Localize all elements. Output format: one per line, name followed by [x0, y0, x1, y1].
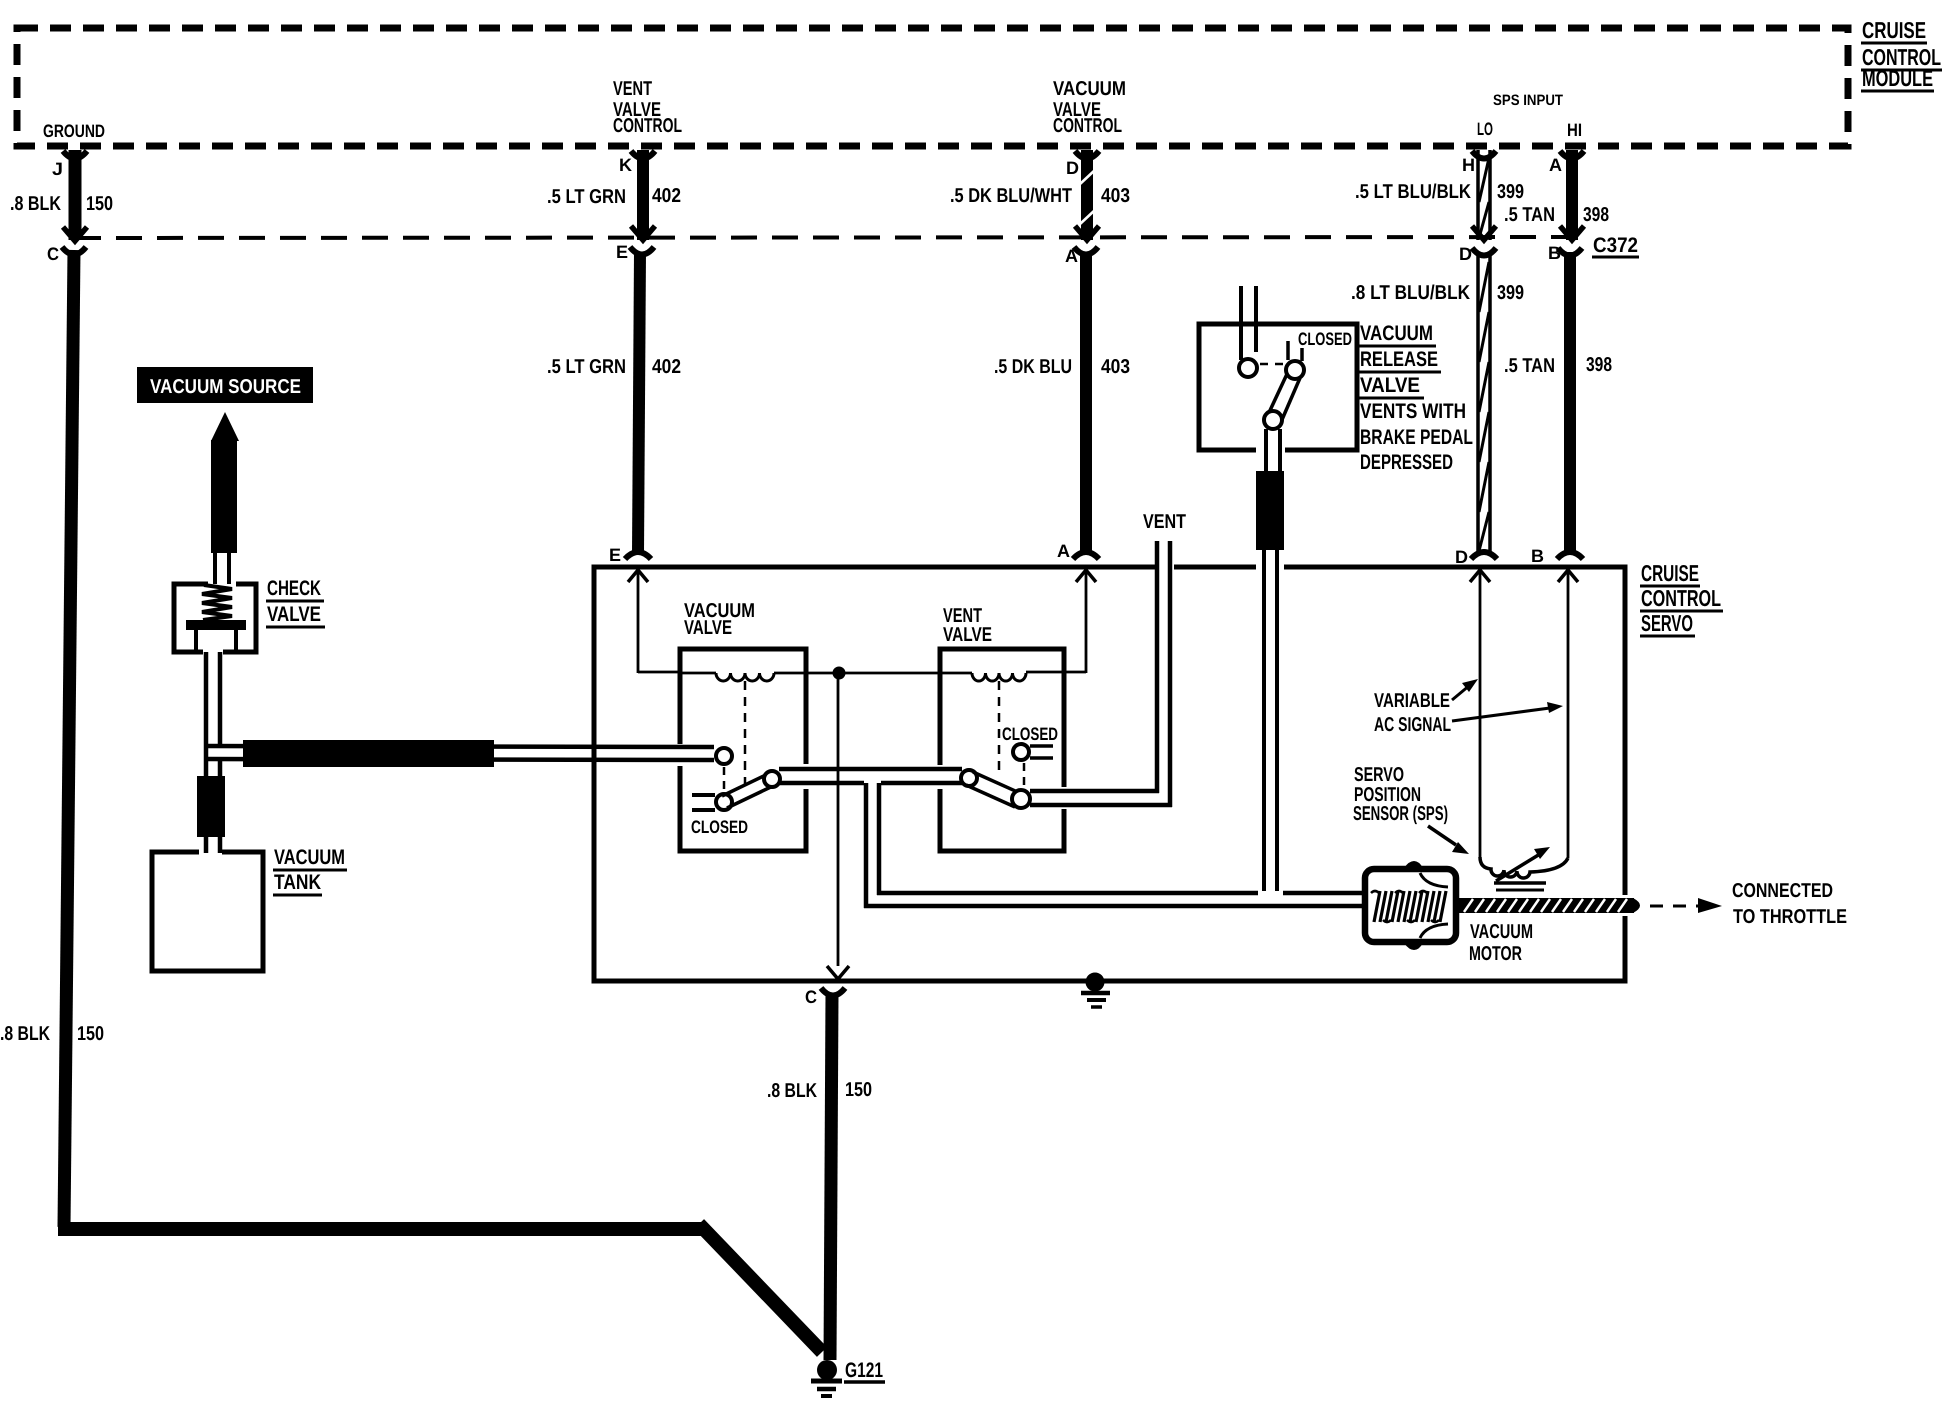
module pin function label SPS INPUT — [1493, 92, 1563, 109]
svg-text:.8 BLK: .8 BLK — [767, 1080, 817, 1102]
svg-text:VACUUM SOURCE: VACUUM SOURCE — [150, 376, 301, 398]
connector collar at pin B — [1558, 248, 1582, 256]
svg-text:403: 403 — [1101, 185, 1130, 207]
connector collar at pin A — [1074, 247, 1098, 255]
svg-text:HI: HI — [1567, 120, 1582, 140]
svg-text:TO THROTTLE: TO THROTTLE — [1733, 906, 1847, 928]
svg-text:VACUUM: VACUUM — [1360, 322, 1433, 345]
module pin function label VACUUM VALVE CONTROL — [1053, 78, 1126, 137]
vacuum source hose (black) — [211, 440, 237, 553]
connected to throttle label — [1732, 880, 1847, 928]
vacuum tank box — [152, 852, 263, 971]
cruise control module label — [1861, 17, 1942, 91]
SPS base lines — [1494, 883, 1546, 890]
vent valve port linkage dashed — [1023, 763, 1026, 791]
vent valve closed port stubs — [1030, 746, 1053, 758]
svg-text:398: 398 — [1586, 354, 1612, 376]
hose sleeve on release tube (black) — [1256, 471, 1284, 550]
connector collar at servo pin C — [821, 988, 845, 996]
svg-text:MODULE: MODULE — [1862, 65, 1933, 91]
svg-text:CLOSED: CLOSED — [1298, 329, 1352, 349]
vent valve coil linkage dashed — [998, 681, 1001, 772]
wire label 402 — [652, 185, 681, 207]
variable AC signal label — [1374, 690, 1451, 736]
svg-text:GROUND: GROUND — [43, 121, 105, 141]
wire end flare at servo pin B — [1557, 552, 1583, 559]
svg-text:150: 150 — [77, 1023, 104, 1045]
connector collar at pin C — [62, 247, 86, 255]
pin letter B (C372) — [1548, 243, 1561, 263]
svg-text:D: D — [1455, 547, 1468, 567]
pin letter H — [1462, 155, 1475, 175]
coil link wire between valves — [774, 672, 972, 675]
wire label 398 lower — [1586, 354, 1612, 376]
connector collar at pin E — [630, 247, 654, 255]
wire label .5 LT GRN — [547, 186, 626, 208]
svg-text:.5 LT GRN: .5 LT GRN — [547, 356, 626, 378]
wire module ground run down left side — [64, 250, 74, 1227]
svg-text:VENTS WITH: VENTS WITH — [1360, 400, 1466, 423]
svg-text:D: D — [1066, 158, 1079, 178]
wire end flare at servo pin E — [625, 552, 651, 559]
vacuum valve label — [684, 600, 755, 639]
cruise control module dashed box — [17, 28, 1848, 146]
svg-text:CLOSED: CLOSED — [691, 817, 748, 837]
vacuum motor body — [1365, 861, 1456, 950]
svg-text:.8 BLK: .8 BLK — [10, 193, 61, 215]
svg-text:CONTROL: CONTROL — [1053, 115, 1122, 137]
vacuum release valve pivot circle — [1286, 361, 1304, 379]
svg-text:J: J — [52, 159, 63, 179]
module pin sublabel LO — [1477, 119, 1493, 139]
throttle dashed arrow — [1650, 898, 1722, 913]
wire end arrow at C372 pin D — [1472, 226, 1496, 240]
vacuum source hose arrow tip — [211, 412, 239, 441]
servo position sensor pointer arrow — [1428, 826, 1469, 854]
pin letter D (C372) — [1459, 244, 1472, 264]
module pin function label VENT VALVE CONTROL — [613, 78, 682, 137]
vacuum release valve vent port circle — [1239, 359, 1257, 377]
vent valve coil — [972, 673, 1026, 681]
wire label .8 BLK (left lower) — [0, 1023, 50, 1045]
servo internal ground wire to pin C — [827, 673, 849, 979]
wire end flare at servo pin A — [1073, 552, 1099, 559]
vent valve lever — [966, 772, 1022, 807]
vacuum release valve vent tube — [1241, 286, 1256, 360]
vent stack tube — [1157, 541, 1170, 807]
svg-text:MOTOR: MOTOR — [1469, 943, 1522, 965]
svg-text:150: 150 — [845, 1079, 872, 1101]
wire label .5 LT BLU/BLK — [1355, 181, 1471, 203]
svg-text:BRAKE PEDAL: BRAKE PEDAL — [1360, 426, 1473, 449]
wire label .8 BLK (servo ground) — [767, 1080, 817, 1102]
svg-text:DEPRESSED: DEPRESSED — [1360, 451, 1453, 474]
svg-text:CLOSED: CLOSED — [1002, 724, 1058, 744]
wire label 399 — [1497, 181, 1524, 203]
svg-text:CRUISE: CRUISE — [1641, 560, 1699, 586]
pin letter D — [1066, 158, 1079, 178]
vacuum release valve box — [1199, 324, 1357, 450]
svg-text:D: D — [1459, 244, 1472, 264]
wire label 399 lower — [1497, 282, 1524, 304]
junction node of valve coils — [833, 667, 846, 680]
svg-text:VARIABLE: VARIABLE — [1374, 690, 1450, 712]
vacuum release valve outlet circle — [1264, 411, 1282, 429]
wire E to servo, .5 LT GRN 402 (lower) — [638, 252, 640, 553]
connector collar at pin D — [1075, 151, 1099, 159]
wire end arrow at C372 pin C — [63, 227, 87, 241]
svg-text:.5 DK BLU/WHT: .5 DK BLU/WHT — [950, 185, 1072, 207]
connector collar at pin K — [631, 151, 655, 159]
svg-text:CRUISE: CRUISE — [1862, 17, 1926, 43]
vent valve box — [940, 649, 1064, 851]
pin letter J — [52, 159, 63, 179]
wire end arrow at C372 pin A — [1075, 226, 1099, 240]
connector collar at pin D lower — [1472, 248, 1496, 256]
pin letter C — [47, 244, 59, 264]
tube tee to vacuum valve — [208, 746, 714, 760]
vacuum tank label — [273, 846, 347, 895]
SPS resistive element — [1480, 857, 1568, 878]
wire label .5 DK BLU/WHT — [950, 185, 1072, 207]
wire label 402 lower — [652, 356, 681, 378]
vacuum valve inlet port circle — [716, 748, 732, 764]
vacuum valve outlet pivot circle — [764, 771, 780, 787]
ground label G121 — [844, 1359, 885, 1382]
svg-text:C372: C372 — [1593, 234, 1638, 257]
check valve box — [174, 584, 256, 652]
VENT label — [1143, 511, 1186, 533]
connector collar at pin H — [1472, 151, 1496, 159]
svg-text:SPS INPUT: SPS INPUT — [1493, 92, 1563, 109]
svg-text:.5 TAN: .5 TAN — [1504, 355, 1555, 377]
wire label .5 DK BLU lower — [994, 356, 1072, 378]
svg-text:A: A — [1549, 155, 1562, 175]
svg-text:A: A — [1065, 246, 1078, 266]
servo internal wire E arrow — [628, 570, 682, 673]
connector label C372 — [1592, 234, 1639, 257]
variable AC signal arrow to B wire — [1452, 702, 1563, 721]
wire label .5 LT GRN lower — [547, 356, 626, 378]
vent valve CLOSED label — [1002, 724, 1058, 744]
svg-text:VACUUM: VACUUM — [1053, 78, 1126, 100]
svg-text:VALVE: VALVE — [1360, 374, 1420, 397]
svg-text:402: 402 — [652, 185, 681, 207]
svg-text:.8 LT BLU/BLK: .8 LT BLU/BLK — [1351, 282, 1470, 304]
vacuum valve port linkage dashed — [723, 767, 726, 791]
svg-text:VENT: VENT — [1143, 511, 1186, 533]
vacuum valve coil linkage dashed — [744, 681, 747, 788]
svg-text:399: 399 — [1497, 282, 1524, 304]
throttle rod (hatched) — [1456, 898, 1640, 913]
wire ground diagonal to G121 — [699, 1224, 822, 1352]
svg-text:A: A — [1057, 541, 1070, 561]
wire label 403 — [1101, 185, 1130, 207]
svg-text:.5 LT BLU/BLK: .5 LT BLU/BLK — [1355, 181, 1471, 203]
servo position sensor label — [1353, 764, 1448, 825]
pin letter E — [616, 242, 628, 262]
pin letter K — [619, 155, 632, 175]
svg-text:398: 398 — [1583, 204, 1609, 226]
tube release valve to motor line — [1264, 550, 1277, 891]
wire B to servo, .5 TAN 398 (lower) — [1564, 252, 1576, 553]
wire D to servo, .8 LT BLU/BLK 399 (striped) — [1478, 255, 1490, 553]
cruise control servo box — [594, 567, 1625, 981]
wire label 150 — [86, 193, 113, 215]
tube to vacuum motor — [864, 893, 1367, 906]
vacuum release valve lever — [1266, 374, 1300, 422]
svg-text:RELEASE: RELEASE — [1360, 348, 1438, 371]
svg-text:LO: LO — [1477, 119, 1493, 139]
servo internal wire A arrow — [1026, 570, 1096, 673]
svg-text:G121: G121 — [845, 1359, 883, 1382]
svg-text:CONTROL: CONTROL — [613, 115, 682, 137]
servo pin letter B — [1531, 546, 1544, 566]
tube check valve to tee and tank — [206, 652, 220, 853]
wire label 398 — [1583, 204, 1609, 226]
servo pin letter C — [805, 987, 817, 1007]
svg-text:TANK: TANK — [274, 871, 321, 894]
wire label .8 LT BLU/BLK — [1351, 282, 1470, 304]
svg-text:VACUUM: VACUUM — [1470, 921, 1533, 943]
wire A, .5 TAN 398 (SPS HI upper) — [1566, 150, 1578, 240]
check valve label — [266, 577, 325, 627]
vacuum motor spring — [1371, 891, 1446, 922]
servo pin letter E — [609, 545, 621, 565]
connector collar at pin J — [63, 151, 87, 159]
vacuum valve coil — [682, 673, 774, 681]
vacuum release valve fixed contact ticks — [1288, 341, 1302, 361]
svg-text:CONTROL: CONTROL — [1641, 585, 1721, 611]
pin letter A (C372) — [1065, 246, 1078, 266]
ground G121 symbol — [811, 1360, 842, 1396]
vacuum release valve label — [1359, 322, 1473, 474]
svg-text:.8 BLK: .8 BLK — [0, 1023, 50, 1045]
vacuum valve closed port circle — [716, 794, 732, 810]
servo pin letter D — [1455, 547, 1468, 567]
variable AC signal arrow to D wire — [1452, 679, 1478, 700]
svg-text:B: B — [1531, 546, 1544, 566]
vent valve inlet pivot circle — [961, 770, 977, 786]
svg-text:VALVE: VALVE — [267, 603, 321, 626]
svg-text:150: 150 — [86, 193, 113, 215]
servo internal wire D arrow to SPS — [1470, 570, 1490, 858]
svg-text:C: C — [47, 244, 59, 264]
tube release valve outlet — [1266, 429, 1280, 473]
tube vent valve to vent stack — [1030, 791, 1172, 805]
connector C372 dashed line — [75, 237, 1588, 238]
vent valve closed port circle — [1013, 744, 1029, 760]
wire end arrow at C372 pin B — [1560, 226, 1584, 240]
vacuum motor label — [1469, 921, 1533, 965]
wire label .5 TAN lower — [1504, 355, 1555, 377]
svg-text:.5 DK BLU: .5 DK BLU — [994, 356, 1072, 378]
vent valve label — [943, 605, 992, 646]
vent valve outlet port circle — [1012, 790, 1030, 808]
wire label 150 (left lower) — [77, 1023, 104, 1045]
vacuum valve lever — [722, 773, 775, 808]
svg-text:VALVE: VALVE — [684, 617, 732, 639]
svg-text:VACUUM: VACUUM — [274, 846, 345, 869]
svg-text:399: 399 — [1497, 181, 1524, 203]
svg-text:CHECK: CHECK — [267, 577, 321, 600]
svg-text:E: E — [616, 242, 628, 262]
svg-text:K: K — [619, 155, 632, 175]
svg-text:402: 402 — [652, 356, 681, 378]
vacuum release valve linkage dashed — [1260, 363, 1285, 366]
svg-text:B: B — [1548, 243, 1561, 263]
SPS wiper arrow — [1496, 847, 1550, 881]
svg-text:VALVE: VALVE — [943, 624, 992, 646]
svg-text:CONNECTED: CONNECTED — [1732, 880, 1833, 902]
svg-text:403: 403 — [1101, 356, 1130, 378]
vacuum valve box — [680, 649, 806, 851]
hose sleeve on tank tube (black) — [197, 776, 225, 837]
svg-text:VENT: VENT — [613, 78, 652, 100]
svg-text:SERVO: SERVO — [1354, 764, 1404, 786]
svg-text:.5 TAN: .5 TAN — [1504, 204, 1555, 226]
tube tee down to motor line — [866, 783, 879, 908]
wire label 150 (servo ground) — [845, 1079, 872, 1101]
vacuum release valve CLOSED label — [1298, 329, 1352, 349]
svg-text:AC SIGNAL: AC SIGNAL — [1374, 714, 1451, 736]
check valve spring — [202, 585, 232, 620]
svg-text:SENSOR (SPS): SENSOR (SPS) — [1353, 803, 1448, 825]
svg-text:.5 LT GRN: .5 LT GRN — [547, 186, 626, 208]
wire label .8 BLK — [10, 193, 61, 215]
cruise control servo label — [1640, 560, 1723, 636]
check valve seat — [196, 630, 236, 652]
servo pin letter A — [1057, 541, 1070, 561]
connector collar at pin A top — [1560, 151, 1584, 159]
wire A to servo, .5 DK BLU 403 (lower) — [1080, 252, 1092, 553]
svg-text:E: E — [609, 545, 621, 565]
wire label .5 TAN — [1504, 204, 1555, 226]
svg-text:H: H — [1462, 155, 1475, 175]
tube vacuum valve to vent valve — [779, 769, 962, 783]
vacuum valve CLOSED label — [691, 817, 748, 837]
module pin sublabel HI — [1567, 120, 1582, 140]
wire servo C to G121, .8 BLK 150 — [830, 994, 832, 1360]
vacuum valve closed port stubs — [692, 795, 715, 810]
hose sleeve on horizontal tube (black) — [243, 740, 494, 767]
tube from hose to check valve — [215, 550, 229, 584]
check valve plate — [186, 620, 246, 630]
servo internal wire B arrow to SPS — [1558, 570, 1578, 858]
wire H, .5 LT BLU/BLK 399 (SPS LO upper, striped) — [1478, 150, 1490, 240]
wire label 403 lower — [1101, 356, 1130, 378]
servo case ground symbol — [1081, 973, 1110, 1008]
wire end arrow at C372 pin E — [631, 226, 655, 240]
svg-text:SERVO: SERVO — [1641, 610, 1693, 636]
wire J to C, .8 BLK 150 (module ground) — [69, 150, 82, 240]
wire end flare at servo pin D — [1471, 552, 1497, 559]
wire K, .5 LT GRN 402 (vent valve control upper) — [637, 150, 649, 240]
svg-text:C: C — [805, 987, 817, 1007]
pin letter A (module) — [1549, 155, 1562, 175]
vacuum source label box — [137, 367, 313, 403]
module pin function label GROUND — [43, 121, 105, 141]
wire D, .5 DK BLU/WHT 403 (vacuum valve control upper) — [1080, 150, 1095, 240]
wire ground run along bottom — [58, 1222, 706, 1236]
